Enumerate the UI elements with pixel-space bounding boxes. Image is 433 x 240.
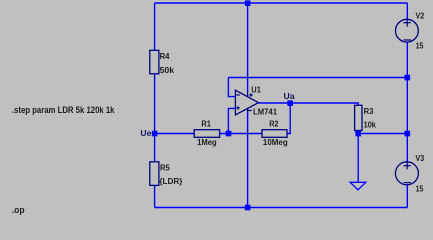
wire R1 to R2 [220, 133, 262, 135]
wire ground drop [357, 134, 359, 183]
svg-text:V3: V3 [416, 153, 425, 163]
resistor R2 [262, 118, 288, 147]
wire Ue to R1 [155, 133, 195, 135]
wire op-amp output to R3 [259, 103, 359, 105]
wire bottom rail [155, 207, 408, 209]
junction R3 bottom [355, 131, 361, 137]
svg-text:V2: V2 [416, 11, 425, 21]
svg-text:.op: .op [12, 205, 25, 215]
svg-text:R3: R3 [364, 106, 374, 116]
wire inverting rail to supply midpoint [228, 77, 407, 79]
wire non-inverting input riser [228, 108, 236, 133]
wire R2 right to node Ua [287, 103, 290, 133]
voltage source V3 [395, 153, 424, 194]
svg-text:10k: 10k [364, 119, 376, 129]
svg-text:Ua: Ua [284, 91, 295, 101]
resistor R3 [355, 105, 376, 130]
svg-text:R2: R2 [269, 118, 278, 128]
resistor R1 [194, 118, 219, 147]
svg-text:R4: R4 [160, 51, 170, 61]
wire right column top (rail to V2) [406, 3, 408, 20]
wire top rail [155, 2, 408, 4]
wire R3 bottom to right column [358, 133, 407, 135]
resistor R5 [150, 162, 183, 186]
wire right column middle (V2 to V3 through junctions) [406, 42, 408, 162]
voltage source V2 [396, 11, 425, 51]
wire V+ supply drop to op-amp [247, 3, 249, 92]
wire left column middle (R4 to R5 through node Ue) [154, 74, 156, 162]
junction bottom rail / V- drop [245, 205, 251, 211]
resistor R4 [150, 50, 174, 75]
op-amp U1 [235, 85, 277, 117]
svg-text:15: 15 [416, 41, 424, 51]
svg-text:.step param LDR 5k 120k 1k: .step param LDR 5k 120k 1k [12, 105, 115, 115]
svg-text:50k: 50k [160, 65, 175, 75]
svg-text:15: 15 [416, 184, 424, 194]
svg-text:1Meg: 1Meg [197, 137, 217, 147]
svg-text:U1: U1 [251, 85, 261, 95]
svg-text:R1: R1 [201, 118, 211, 128]
junction R1/R2/op-amp input node [226, 131, 232, 137]
wire V- supply drop to bottom rail [247, 112, 249, 208]
wire right column bottom (V3 to bottom rail) [406, 185, 408, 208]
junction node Ue [152, 131, 158, 137]
svg-text:{LDR}: {LDR} [159, 176, 183, 186]
wire left column lower (R5 to bottom rail) [154, 185, 156, 207]
svg-text:R5: R5 [160, 162, 170, 172]
junction R3 row / right column [405, 131, 411, 137]
svg-text:10Meg: 10Meg [263, 137, 288, 147]
junction top rail / V+ drop [245, 0, 251, 6]
ground [350, 182, 366, 190]
wire inverting input riser [228, 78, 236, 97]
svg-text:LM741: LM741 [253, 106, 277, 116]
wire left column upper (top rail to R4) [154, 3, 156, 50]
svg-text:Ue: Ue [140, 128, 151, 138]
junction inverting rail / right column [405, 75, 411, 81]
wire R3 bottom stub [357, 131, 359, 134]
junction node Ua [287, 100, 293, 106]
